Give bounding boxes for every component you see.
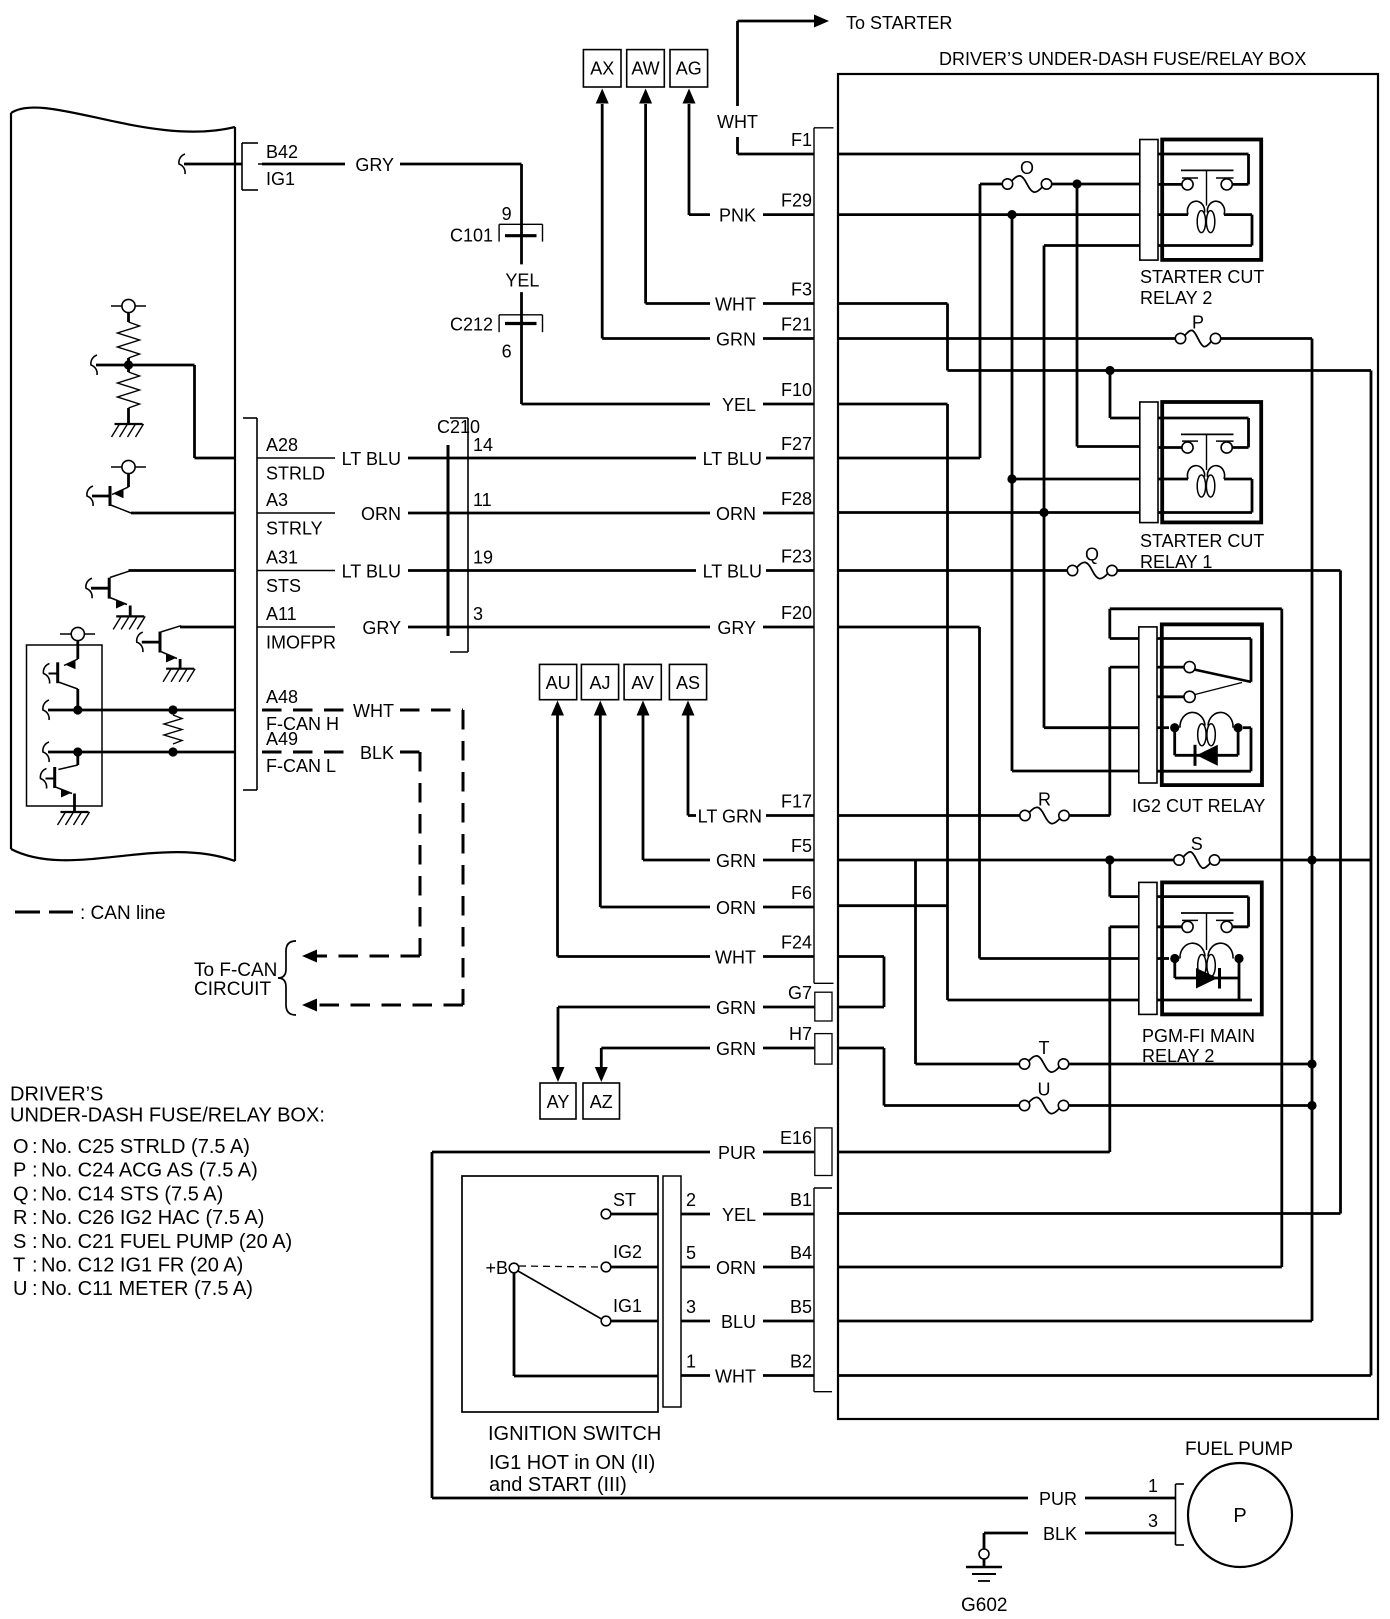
svg-text:Q: Q — [1085, 545, 1099, 565]
svg-text:F27: F27 — [781, 434, 812, 454]
svg-text:R: R — [1038, 790, 1051, 810]
svg-text:C101: C101 — [450, 226, 493, 246]
svg-text:U: U — [13, 1278, 27, 1300]
svg-text:CIRCUIT: CIRCUIT — [194, 979, 271, 1000]
svg-text:B42: B42 — [266, 142, 298, 162]
svg-text:F23: F23 — [781, 547, 812, 567]
svg-text:: CAN line: : CAN line — [80, 903, 166, 924]
svg-text:DRIVER’S: DRIVER’S — [10, 1084, 103, 1106]
svg-text:WHT: WHT — [715, 1367, 756, 1387]
svg-text::: : — [32, 1255, 38, 1277]
svg-text:19: 19 — [473, 548, 493, 568]
svg-text:E16: E16 — [780, 1128, 812, 1148]
svg-text:C212: C212 — [450, 315, 493, 335]
svg-text:+B: +B — [485, 1258, 508, 1278]
svg-text:No. C21 FUEL PUMP (20 A): No. C21 FUEL PUMP (20 A) — [41, 1231, 292, 1253]
svg-text:C210: C210 — [437, 417, 480, 437]
svg-text:F21: F21 — [781, 315, 812, 335]
svg-text:LT GRN: LT GRN — [698, 807, 762, 827]
svg-text:YEL: YEL — [505, 271, 539, 291]
svg-text:STRLD: STRLD — [266, 464, 325, 484]
svg-text:GRN: GRN — [716, 330, 756, 350]
svg-text:S: S — [1191, 834, 1203, 854]
svg-text:F24: F24 — [781, 933, 812, 953]
svg-text:LT BLU: LT BLU — [703, 449, 762, 469]
svg-text:LT BLU: LT BLU — [703, 562, 762, 582]
svg-text:T: T — [1039, 1038, 1050, 1058]
svg-text:A28: A28 — [266, 435, 298, 455]
svg-text:B5: B5 — [790, 1297, 812, 1317]
svg-text:PUR: PUR — [1039, 1489, 1077, 1509]
svg-text:P: P — [1233, 1505, 1246, 1527]
svg-text:F-CAN L: F-CAN L — [266, 756, 336, 776]
svg-text:STS: STS — [266, 576, 301, 596]
svg-text:RELAY 2: RELAY 2 — [1142, 1046, 1214, 1066]
svg-text:2: 2 — [686, 1190, 696, 1210]
svg-text:3: 3 — [473, 604, 483, 624]
svg-text:PNK: PNK — [719, 206, 756, 226]
svg-text:P: P — [1192, 313, 1204, 333]
svg-text:11: 11 — [473, 490, 492, 510]
svg-text:IG1 HOT in ON (II): IG1 HOT in ON (II) — [489, 1452, 655, 1474]
svg-text:B4: B4 — [790, 1243, 812, 1263]
svg-text:F17: F17 — [781, 792, 812, 812]
svg-text:A3: A3 — [266, 490, 288, 510]
svg-text:and START (III): and START (III) — [489, 1474, 627, 1496]
svg-text:BLK: BLK — [360, 743, 394, 763]
svg-text:ORN: ORN — [716, 1258, 756, 1278]
svg-text:F29: F29 — [781, 191, 812, 211]
svg-text:IG2: IG2 — [613, 1242, 642, 1262]
svg-text:1: 1 — [686, 1352, 696, 1372]
svg-text:GRN: GRN — [716, 1039, 756, 1059]
svg-text::: : — [32, 1136, 38, 1158]
svg-text:No. C26 IG2 HAC (7.5 A): No. C26 IG2 HAC (7.5 A) — [41, 1207, 264, 1229]
svg-text:AG: AG — [676, 59, 702, 79]
svg-text:To F-CAN: To F-CAN — [194, 960, 277, 981]
svg-text:6: 6 — [502, 342, 512, 362]
svg-text:AS: AS — [676, 673, 700, 693]
svg-text:IMOFPR: IMOFPR — [266, 633, 336, 653]
svg-text:A49: A49 — [266, 729, 298, 749]
svg-text:U: U — [1038, 1080, 1051, 1100]
svg-text:DRIVER’S UNDER-DASH FUSE/RELAY: DRIVER’S UNDER-DASH FUSE/RELAY BOX — [939, 49, 1306, 69]
svg-text::: : — [32, 1160, 38, 1182]
svg-text:No. C11 METER (7.5 A): No. C11 METER (7.5 A) — [41, 1278, 253, 1300]
svg-text:S: S — [13, 1231, 26, 1253]
svg-text:ORN: ORN — [716, 504, 756, 524]
svg-text:9: 9 — [502, 204, 512, 224]
svg-text:RELAY 1: RELAY 1 — [1140, 552, 1212, 572]
svg-text:P: P — [13, 1160, 26, 1182]
svg-text:ORN: ORN — [361, 504, 401, 524]
svg-text:T: T — [13, 1255, 25, 1277]
svg-text:AY: AY — [547, 1092, 570, 1112]
svg-text:PGM-FI MAIN: PGM-FI MAIN — [1142, 1026, 1255, 1046]
svg-text:IGNITION SWITCH: IGNITION SWITCH — [488, 1423, 661, 1445]
svg-text:AV: AV — [631, 673, 654, 693]
svg-text:F3: F3 — [791, 280, 812, 300]
svg-text:No. C12 IG1 FR (20 A): No. C12 IG1 FR (20 A) — [41, 1255, 243, 1277]
svg-text:O: O — [1020, 158, 1034, 178]
svg-text:FUEL PUMP: FUEL PUMP — [1185, 1439, 1293, 1460]
svg-text:5: 5 — [686, 1243, 696, 1263]
svg-text:F5: F5 — [791, 836, 812, 856]
svg-text:YEL: YEL — [722, 395, 756, 415]
svg-text:R: R — [13, 1207, 27, 1229]
svg-text:WHT: WHT — [717, 112, 758, 132]
svg-text:A11: A11 — [266, 604, 297, 624]
svg-text:O: O — [13, 1136, 29, 1158]
svg-text:IG2 CUT RELAY: IG2 CUT RELAY — [1132, 796, 1265, 816]
svg-text:14: 14 — [473, 435, 493, 455]
svg-text:RELAY 2: RELAY 2 — [1140, 288, 1212, 308]
svg-text::: : — [32, 1278, 38, 1300]
svg-text:IG1: IG1 — [266, 169, 295, 189]
svg-text:GRY: GRY — [362, 618, 401, 638]
svg-text:LT BLU: LT BLU — [342, 562, 401, 582]
svg-text:A48: A48 — [266, 687, 298, 707]
svg-text::: : — [32, 1207, 38, 1229]
svg-text:STARTER CUT: STARTER CUT — [1140, 531, 1264, 551]
svg-text:F20: F20 — [781, 603, 812, 623]
svg-text:STARTER CUT: STARTER CUT — [1140, 267, 1264, 287]
svg-text:No. C24 ACG AS (7.5 A): No. C24 ACG AS (7.5 A) — [41, 1160, 258, 1182]
svg-text:To STARTER: To STARTER — [846, 13, 952, 33]
svg-text:GRN: GRN — [716, 998, 756, 1018]
svg-text:AU: AU — [546, 673, 571, 693]
svg-text:IG1: IG1 — [613, 1296, 642, 1316]
svg-text:YEL: YEL — [722, 1205, 756, 1225]
svg-text:STRLY: STRLY — [266, 519, 323, 539]
svg-text:G602: G602 — [961, 1595, 1007, 1614]
svg-text:AX: AX — [590, 59, 614, 79]
svg-text:PUR: PUR — [718, 1143, 756, 1163]
svg-text::: : — [32, 1231, 38, 1253]
svg-text:WHT: WHT — [715, 948, 756, 968]
svg-text:No. C25 STRLD (7.5 A): No. C25 STRLD (7.5 A) — [41, 1136, 250, 1158]
svg-text:3: 3 — [1148, 1511, 1158, 1531]
svg-text:BLU: BLU — [721, 1312, 756, 1332]
svg-text:3: 3 — [686, 1297, 696, 1317]
svg-text:F6: F6 — [791, 883, 812, 903]
svg-text:WHT: WHT — [353, 701, 394, 721]
svg-text:G7: G7 — [788, 983, 812, 1003]
svg-text:WHT: WHT — [715, 295, 756, 315]
svg-text:F1: F1 — [791, 130, 812, 150]
svg-text:A31: A31 — [266, 548, 298, 568]
svg-text:Q: Q — [13, 1183, 29, 1205]
svg-text:GRN: GRN — [716, 851, 756, 871]
svg-text:AW: AW — [631, 59, 659, 79]
svg-text:1: 1 — [1148, 1476, 1158, 1496]
svg-text:GRY: GRY — [355, 155, 394, 175]
svg-text:AZ: AZ — [590, 1092, 613, 1112]
svg-text:LT BLU: LT BLU — [342, 449, 401, 469]
svg-text:No. C14 STS (7.5 A): No. C14 STS (7.5 A) — [41, 1183, 223, 1205]
svg-text:BLK: BLK — [1043, 1524, 1077, 1544]
svg-text:F10: F10 — [781, 380, 812, 400]
svg-text:ORN: ORN — [716, 898, 756, 918]
svg-text::: : — [32, 1183, 38, 1205]
svg-text:B1: B1 — [790, 1190, 812, 1210]
svg-text:UNDER-DASH FUSE/RELAY BOX:: UNDER-DASH FUSE/RELAY BOX: — [10, 1105, 325, 1127]
svg-text:ST: ST — [613, 1190, 636, 1210]
svg-text:F28: F28 — [781, 489, 812, 509]
svg-text:AJ: AJ — [589, 673, 610, 693]
svg-text:B2: B2 — [790, 1352, 812, 1372]
svg-text:GRY: GRY — [717, 618, 756, 638]
svg-text:H7: H7 — [789, 1024, 812, 1044]
